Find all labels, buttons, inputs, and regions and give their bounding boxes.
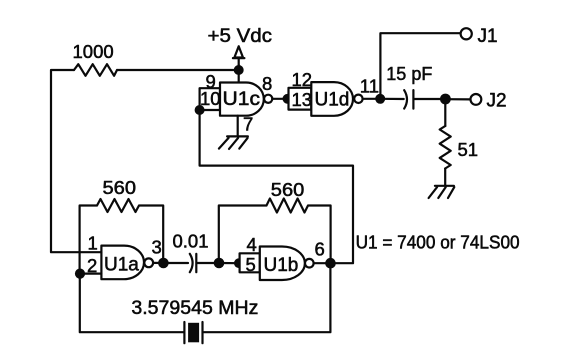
junction: C1 / R3 node xyxy=(214,258,225,269)
junction: U1d output node xyxy=(375,94,385,104)
svg-text:U1a: U1a xyxy=(104,255,139,276)
wire: pin2 node down to crystal xyxy=(80,274,184,333)
gate U1d xyxy=(311,82,353,116)
wire: feedback pin6 node up to U1c input xyxy=(200,110,353,263)
capacitor C1 0.01 xyxy=(163,254,219,272)
wire: left rail from R1 down to U1a pin 1 xyxy=(51,70,102,252)
svg-text:U1d: U1d xyxy=(315,90,350,111)
svg-text:U1 = 7400 or 74LS00: U1 = 7400 or 74LS00 xyxy=(356,232,520,252)
svg-text:13: 13 xyxy=(292,89,313,110)
svg-text:U1c: U1c xyxy=(223,89,261,110)
svg-text:4: 4 xyxy=(247,234,257,255)
junction: +5 / R1 / U1c Vcc node xyxy=(234,65,244,75)
svg-text:3: 3 xyxy=(152,237,162,258)
wire: U1c pin 7 to ground xyxy=(237,116,239,137)
junction: U1b input node xyxy=(234,258,244,268)
output bubble U1d xyxy=(354,95,362,103)
gate U1d input box (pins 12,13) xyxy=(289,88,312,110)
wire: output node up and right to J1 xyxy=(380,33,460,99)
wire: U1a pin 2 lead xyxy=(80,273,101,275)
wire: U1d out to output node xyxy=(363,98,381,100)
svg-text:5: 5 xyxy=(246,254,256,275)
svg-text:8: 8 xyxy=(262,73,272,94)
power +5 Vdc arrow symbol xyxy=(233,46,245,65)
wire: crystal to pin6 node xyxy=(204,263,331,332)
output bubble U1b xyxy=(305,259,314,268)
svg-text:3.579545 MHz: 3.579545 MHz xyxy=(131,298,258,319)
svg-text:6: 6 xyxy=(315,239,325,260)
wire: +5 node down to U1c Vcc pin xyxy=(238,65,240,83)
wire: U1c out to U1d input xyxy=(272,98,288,100)
junction: U1c input node xyxy=(195,105,205,115)
terminal J2 xyxy=(471,94,482,105)
svg-text:11: 11 xyxy=(360,76,379,97)
svg-text:15 pF: 15 pF xyxy=(386,64,432,84)
ground (R4) xyxy=(429,186,455,198)
svg-text:U1b: U1b xyxy=(264,255,299,276)
wire: R4 to ground xyxy=(444,169,446,186)
junction: J2 / R4 node xyxy=(440,94,451,105)
svg-text:J2: J2 xyxy=(487,91,507,112)
wire: node to J2 xyxy=(445,98,470,100)
wire: U1b output lead xyxy=(314,262,331,264)
gate U1a xyxy=(101,246,144,280)
resistor R4 51 xyxy=(440,126,451,169)
gate U1b xyxy=(260,247,305,281)
gate U1c input box (pins 9,10) xyxy=(200,88,220,110)
svg-text:0.01: 0.01 xyxy=(173,231,209,252)
junction: U1d input node xyxy=(283,94,293,104)
wire: U1a output to C1 node xyxy=(153,262,163,264)
crystal Y1 xyxy=(184,322,202,343)
wire: C1 node to U1b input box xyxy=(219,262,239,264)
svg-text:560: 560 xyxy=(103,177,137,198)
gate U1b input box (pins 4,5) xyxy=(240,253,260,272)
output bubble U1a xyxy=(144,258,153,267)
junction: U1a out / C1 node xyxy=(158,258,169,269)
output bubble U1c xyxy=(264,95,272,103)
resistor R2 560 feedback U1a xyxy=(80,199,164,274)
svg-text:+5 Vdc: +5 Vdc xyxy=(208,26,273,47)
svg-text:1: 1 xyxy=(88,233,98,254)
ground (U1c pin 7) xyxy=(219,136,248,149)
junction: U1b pin 6 node xyxy=(325,258,336,269)
capacitor C2 15 pF xyxy=(380,90,445,109)
svg-text:J1: J1 xyxy=(478,26,498,47)
svg-text:7: 7 xyxy=(243,114,253,135)
gate U1c xyxy=(220,83,264,116)
svg-text:10: 10 xyxy=(200,88,221,109)
svg-text:12: 12 xyxy=(292,69,313,90)
svg-text:51: 51 xyxy=(458,139,479,160)
svg-text:560: 560 xyxy=(271,179,305,200)
wire: node down to R4 xyxy=(444,99,446,126)
resistor R1 1000 xyxy=(74,64,234,76)
svg-text:1000: 1000 xyxy=(73,41,114,62)
terminal J1 xyxy=(461,28,472,39)
junction: U1a pin2 / R2 / crystal node xyxy=(75,269,85,279)
resistor R3 560 feedback U1b xyxy=(219,199,331,264)
